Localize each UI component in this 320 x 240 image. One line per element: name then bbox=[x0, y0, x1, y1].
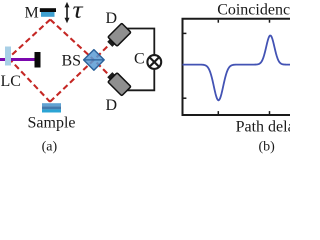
beam path: beamsplitter to detector D1 bbox=[97, 44, 110, 57]
coincidence curve bbox=[183, 35, 293, 100]
wire from detector D2 to coincidence counter bbox=[124, 69, 154, 90]
svg-text:τ: τ bbox=[73, 0, 84, 24]
beam path: sample to beamsplitter bbox=[50, 60, 94, 102]
svg-text:C: C bbox=[134, 51, 145, 68]
beamsplitter BS bbox=[84, 50, 105, 71]
nonlinear crystal LC bbox=[5, 47, 11, 66]
axis ticks bbox=[184, 20, 270, 114]
svg-text:Path delay: Path delay bbox=[236, 119, 290, 136]
plot frame (panel b) bbox=[183, 19, 296, 115]
svg-text:BS: BS bbox=[62, 53, 82, 70]
beam path: crystal to sample bbox=[9, 58, 51, 102]
wire from detector D1 to coincidence counter bbox=[124, 29, 154, 56]
beam path: beamsplitter to detector D2 bbox=[97, 63, 110, 76]
detector D1 (top) bbox=[105, 23, 131, 49]
svg-text:LC: LC bbox=[1, 73, 21, 90]
svg-text:Sample: Sample bbox=[28, 115, 76, 132]
svg-text:Coincidence: Coincidence bbox=[217, 1, 290, 18]
coincidence counter symbol bbox=[147, 55, 161, 69]
svg-text:M: M bbox=[25, 5, 39, 22]
sample (layered slab) bbox=[42, 103, 61, 112]
beam path: mirror M to beamsplitter bbox=[50, 20, 94, 60]
pump laser beam (purple) bbox=[0, 58, 37, 61]
svg-text:(b): (b) bbox=[259, 140, 276, 155]
beam path: crystal to mirror M bbox=[9, 20, 51, 59]
mirror M black bar bbox=[40, 8, 56, 12]
translation arrow (double-headed) bbox=[65, 2, 70, 23]
svg-text:(a): (a) bbox=[42, 140, 58, 155]
mirror M blue face bbox=[41, 12, 55, 17]
svg-text:D: D bbox=[106, 97, 118, 114]
beam dump bbox=[35, 52, 41, 68]
detector D2 (bottom) bbox=[105, 70, 131, 96]
svg-text:D: D bbox=[106, 10, 118, 27]
